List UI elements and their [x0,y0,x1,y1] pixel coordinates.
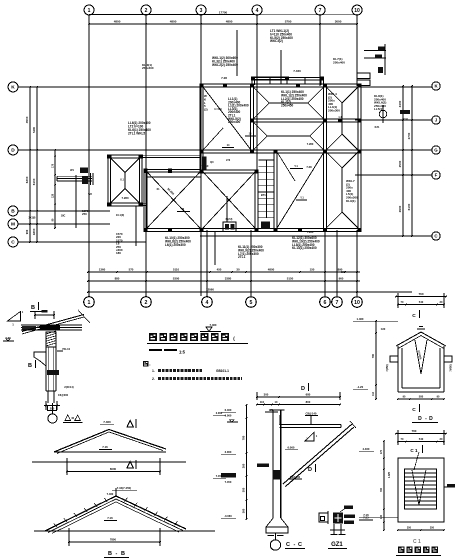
svg-text:C: C [412,407,416,413]
svg-text:260: 260 [241,463,245,468]
svg-text:10.1(0): 10.1(0) [116,213,124,217]
profile2 roof slopes [45,496,116,531]
svg-text:LT3: LT3 [226,159,231,162]
svg-text:1: 1 [88,300,91,306]
svg-text:F: F [435,173,438,178]
C-C column cap [270,409,285,411]
svg-text:7(450): 7(450) [386,364,389,371]
GZ1 leader top [340,508,346,512]
svg-text:7.16: 7.16 [107,516,113,520]
svg-text:Y.1: Y.1 [294,164,298,168]
svg-text:C8@140: C8@140 [305,412,316,416]
svg-text:-1.20: -1.20 [357,385,364,389]
notes header [143,361,149,367]
profile2 eave line [34,530,215,532]
svg-text:1.025: 1.025 [388,471,391,478]
title level symbol [200,330,221,332]
extra dim ticks inside plan [245,135,256,137]
svg-text::: : [149,362,150,367]
column nodes at wall intersections [199,83,203,87]
svg-text:7.280: 7.280 [307,142,314,146]
A-A dim top [35,314,54,316]
svg-text:12060: 12060 [206,287,214,291]
profile1 dim [67,470,160,472]
C-C embed plate [272,470,281,480]
svg-text:1:5: 1:5 [179,349,186,354]
svg-text:D: D [301,386,305,392]
svg-text:6: 6 [324,300,327,306]
svg-text:250: 250 [82,212,87,216]
svg-text:W1: W1 [70,169,74,172]
svg-text:180: 180 [116,251,121,255]
svg-text:7.450: 7.450 [216,474,223,478]
svg-text:4|0: 4|0 [210,161,214,164]
slope triangle A-A [7,311,20,321]
svg-text:B: B [31,305,35,311]
svg-text:D: D [308,467,312,473]
svg-text:C: C [11,240,15,246]
svg-text:2: 2 [145,8,148,14]
C1 title blobs [398,547,404,553]
svg-text:2TL1 WKL5: 2TL1 WKL5 [128,131,145,135]
svg-text:1.: 1. [152,369,155,373]
svg-text:D: D [429,416,433,422]
GZ1 column section [333,513,343,524]
svg-text:B: B [121,551,125,557]
left wall stub with window [57,175,92,177]
D-D gable top [396,332,446,346]
interior wall horizontal y151 [202,149,360,151]
svg-text:880: 880 [115,276,120,280]
svg-text:4: 4 [256,8,259,14]
left vertical line x76 [75,175,77,228]
svg-text:150: 150 [341,271,346,274]
top dimension line total [89,14,357,16]
A-A roof slab [21,324,82,326]
bottom dimension rows [88,271,360,273]
scale bar [149,349,162,351]
profile1 base line [32,461,186,463]
svg-text:W2: W2 [88,193,92,196]
title underline [147,342,248,344]
svg-text:7.28: 7.28 [221,76,227,80]
C-C top dims [257,396,340,398]
svg-text:250x400: 250x400 [142,66,154,70]
left dimension chains [29,87,31,242]
svg-text:C: C [298,542,302,548]
svg-text:3000: 3000 [335,20,342,24]
A-A lower tie [47,391,49,403]
C-C left dim chain [245,405,247,519]
svg-text:960: 960 [339,277,344,281]
svg-text:760: 760 [411,429,416,433]
svg-text:2TL1: 2TL1 [238,255,246,259]
svg-text:5150: 5150 [287,277,294,281]
A-A label [65,415,71,421]
svg-text:-: - [294,542,296,548]
svg-text:200x300: 200x300 [328,109,340,113]
profile1 roof slopes [54,429,109,452]
ridge line to chimney [226,196,228,222]
svg-text:150: 150 [310,268,315,272]
C-C footing [266,518,288,533]
svg-text:D: D [418,416,422,422]
A-A column [45,347,47,391]
A-A roof diagonal [22,314,84,331]
svg-text:C 1: C 1 [410,448,418,453]
svg-text:1800: 1800 [32,228,36,235]
svg-text:X.1: X.1 [120,178,124,181]
top bay wall [253,76,322,78]
interior wall vertical x275 [273,152,275,231]
svg-text:1.460: 1.460 [356,317,363,321]
main block outer walls [200,83,361,85]
left vertical dim chain x55 [54,150,56,228]
svg-text:3380: 3380 [225,276,232,280]
svg-text:4.460: 4.460 [362,447,369,451]
C1 top dim [396,433,446,435]
hip roof room B lower-left [147,172,174,200]
svg-text:6000: 6000 [110,467,117,471]
vertical grid lines [88,15,90,296]
svg-text:7.460: 7.460 [209,323,216,327]
svg-text:250x400: 250x400 [333,60,345,64]
svg-text:4800: 4800 [170,19,177,23]
A-A corbel [34,352,46,366]
svg-text:BT13: BT13 [261,193,268,197]
top-right leader annotation [364,50,386,52]
svg-text:110: 110 [372,391,375,396]
svg-text:6100: 6100 [407,203,411,210]
svg-text:2: 2 [145,300,148,306]
svg-text:7800: 7800 [110,537,117,541]
svg-text:5300: 5300 [173,276,180,280]
svg-text:4: 4 [206,300,209,306]
svg-text:4500: 4500 [25,116,29,123]
svg-text:7: 7 [319,8,322,14]
svg-text:5110: 5110 [173,267,180,271]
svg-text:4800: 4800 [114,19,121,23]
svg-text:B(2U): B(2U) [226,218,233,221]
C-C base circle [270,540,280,550]
grid bubbles top [84,5,94,15]
svg-text:130: 130 [380,514,383,519]
svg-text:(2): (2) [204,108,208,112]
svg-text:1360: 1360 [99,267,106,271]
svg-text:4800: 4800 [268,268,275,272]
svg-text:540: 540 [419,300,424,304]
svg-text:D: D [11,148,15,154]
D-D left dim chain [375,321,377,399]
horizontal grid lines [18,86,432,88]
D-D outer box [397,346,399,392]
hip roof room I mid strip [253,122,267,136]
svg-text:C: C [286,542,290,548]
A-A level flag [3,340,14,342]
hip roof room D lower-mid2 [277,152,324,228]
GZ1 texts right [344,515,355,518]
svg-text:h=100: h=100 [214,108,222,111]
svg-text:350: 350 [430,527,435,530]
interior wall vertical x252 [250,86,252,152]
svg-text:3.060: 3.060 [225,450,232,454]
interior wall horizontal y120 [252,118,359,120]
grid bubbles right [432,82,440,90]
svg-text:B: B [28,363,32,369]
svg-text:2700: 2700 [407,132,411,139]
svg-text:250x450: 250x450 [281,104,293,108]
svg-text:570: 570 [129,267,134,271]
main title blobs [149,333,157,341]
svg-text:7: 7 [336,300,339,306]
svg-text:780: 780 [241,435,245,440]
C-C column [272,410,274,518]
svg-text:KL13(1) 250x400: KL13(1) 250x400 [292,246,317,250]
svg-text:170: 170 [52,163,55,168]
C-C footing base ticks [267,535,274,537]
svg-text:6300: 6300 [25,176,29,183]
svg-text:C: C [412,313,416,319]
svg-text:360: 360 [241,508,245,513]
svg-text:7.280: 7.280 [307,230,314,234]
svg-text:2.060: 2.060 [216,411,223,415]
leader line top [236,30,238,76]
stair bottom landing dark bar [261,222,270,230]
svg-text:LL5(1): LL5(1) [374,107,383,111]
chimney rect with flues [223,222,236,232]
svg-text:300: 300 [264,393,269,397]
A-A hatched wall [46,332,56,347]
svg-text:7.280: 7.280 [122,196,129,200]
top dimension line segments [89,23,357,25]
svg-text:WKL3(2): WKL3(2) [270,39,283,43]
C1 louver box [404,469,436,509]
svg-text:2.70: 2.70 [5,336,11,340]
svg-text:7.28: 7.28 [306,165,312,169]
GZ1 left clamp [319,513,328,522]
A-A detail bubble [48,414,57,423]
svg-text:C6@200: C6@200 [58,393,69,397]
svg-text:3400: 3400 [398,100,402,107]
svg-text:C 1: C 1 [413,539,421,545]
left hip block connector walls [142,154,202,156]
svg-text:760: 760 [418,292,423,296]
svg-text:M: M [182,207,184,211]
hip roof room H upper-right [326,87,342,103]
profile2 rafter ticks [54,523,57,527]
leader vertical lower [135,206,137,246]
svg-text:C6@200: C6@200 [290,475,301,479]
svg-text:GB101-1: GB101-1 [216,369,229,373]
svg-text:3: 3 [200,8,203,14]
D-D bottom dim [398,398,444,400]
svg-text:-: - [116,551,118,557]
svg-text:6.060: 6.060 [287,446,294,450]
svg-text:30: 30 [236,268,240,272]
axis circle right [379,110,387,118]
svg-text:7.460: 7.460 [107,492,114,496]
C-C slope triangle [305,433,314,442]
C1 inner V [412,470,419,505]
svg-text:7.16: 7.16 [363,513,369,517]
section marker A top [127,420,133,427]
svg-text:2900: 2900 [398,205,402,212]
svg-text:2C16: 2C16 [402,118,408,121]
svg-text:G: G [434,148,438,153]
section marker A bottom [127,461,133,468]
svg-text:6100: 6100 [32,178,36,185]
svg-text:780: 780 [371,353,375,358]
svg-text:7.16: 7.16 [102,445,108,449]
left hip block walls [108,154,142,156]
svg-text:900: 900 [25,229,29,234]
hip roof room F upper-left [203,87,251,150]
bottom grid stubs [206,230,208,296]
svg-text:680: 680 [306,393,311,397]
svg-text:120: 120 [52,193,55,198]
svg-text:5400: 5400 [32,126,36,132]
profile1 eave line [54,451,166,453]
svg-text:110: 110 [260,400,265,404]
grid bubbles left [8,82,18,92]
C-C mid blob [257,464,269,468]
D-D top dim [396,296,446,298]
svg-text:10: 10 [354,300,360,306]
svg-text:580: 580 [419,395,424,399]
svg-text:1: 1 [88,8,91,14]
right dimension chains [402,86,404,236]
interior wall vertical x256 lower [254,172,256,231]
hip roof left block [111,158,126,173]
svg-text:-0.060: -0.060 [224,514,232,518]
svg-text:800: 800 [306,400,311,404]
svg-text:7.34(7.450): 7.34(7.450) [117,486,131,490]
svg-text:YKL10: YKL10 [62,347,71,351]
grid bubbles bottom [84,297,95,308]
svg-text:5700: 5700 [285,20,292,24]
interior wall horizontal y170 mid [202,169,257,171]
C-C slab [278,415,280,425]
svg-text:L6(1) 200x300: L6(1) 200x300 [165,243,186,247]
svg-text:450: 450 [217,267,222,271]
GZ1 lower mark [333,524,335,534]
svg-text:M: M [11,222,15,228]
D-D inner V [415,340,421,374]
svg-text:7.460: 7.460 [293,69,301,73]
A-A bottom dim [44,404,60,406]
svg-text:WKL2(2) 250x400: WKL2(2) 250x400 [212,63,238,67]
svg-text:B: B [11,209,15,215]
svg-text:700: 700 [380,487,383,492]
svg-text:Y.1: Y.1 [300,197,304,200]
svg-text:170: 170 [380,449,383,454]
svg-text:KL9(1): KL9(1) [346,199,355,203]
profile2 dim [69,541,160,543]
C1 outer box [398,458,444,522]
svg-text:18C: 18C [61,214,66,217]
svg-text:GZ1: GZ1 [331,542,343,548]
D-D side stubs [390,356,398,362]
interior wall vertical x325 lower [323,152,325,231]
stair treads in corridor [259,159,275,161]
right side window stubs [357,73,370,79]
interior wall vertical x325 [323,86,325,152]
svg-text:6.460: 6.460 [225,408,232,412]
svg-text:2.: 2. [152,377,155,381]
hip roof room E lower-right [326,152,342,168]
svg-text:B: B [108,551,112,557]
svg-text:K: K [11,85,15,91]
svg-text:7(450): 7(450) [449,364,452,371]
svg-text:250x400: 250x400 [228,120,240,124]
C1 left dim chain [383,441,385,530]
svg-text:17700: 17700 [219,10,228,14]
svg-text:2500: 2500 [398,160,402,167]
svg-text:300: 300 [241,487,245,492]
C-C rafter diagonal [283,424,352,484]
svg-text:10: 10 [354,8,360,14]
svg-text:KZ1: KZ1 [375,126,380,129]
svg-text:540: 540 [419,437,424,441]
svg-text:4800: 4800 [226,19,233,23]
svg-text:C20: C20 [381,328,386,331]
svg-text:2(2C14): 2(2C14) [64,385,74,389]
C1 bottom dim [398,529,444,531]
svg-text:5: 5 [250,300,253,306]
svg-text:7.460: 7.460 [103,420,111,424]
svg-text:350: 350 [407,527,412,530]
hip roof room G upper-mid [253,87,269,103]
C1 right note [447,484,455,487]
svg-text:7.450: 7.450 [225,480,232,484]
hip roof room C lower-mid [203,172,229,200]
svg-text:2X1|B: 2X1|B [29,216,36,219]
